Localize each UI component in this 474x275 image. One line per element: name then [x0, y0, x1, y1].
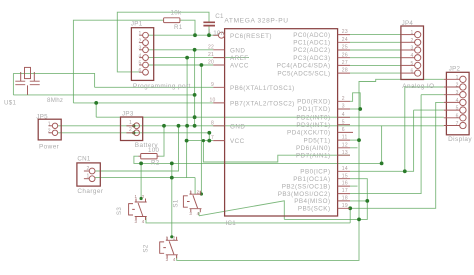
- switch S2 labels: [143, 235, 176, 262]
- svg-text:S2: S2: [143, 244, 150, 252]
- wire long line y116.5 to JP2 pin6: [96, 116, 444, 118]
- wire XTAL1 row y87.3 to IC pin9: [95, 86, 214, 88]
- switch S1: [183, 191, 201, 213]
- IC1 pin 1 inversion circle: [218, 32, 224, 38]
- svg-text:10k: 10k: [171, 9, 182, 16]
- wire AREF row y57.6: JP1 pin4 to IC pin21 crossing into IC: [148, 57, 249, 59]
- wire VCC bus y132.8: JP5 pin2 through JP3 to VCC riser: [58, 133, 209, 141]
- svg-text:PB4(MISO): PB4(MISO): [294, 198, 330, 205]
- svg-text:PD5(T1): PD5(T1): [304, 137, 331, 144]
- svg-text:14: 14: [342, 166, 348, 172]
- crystal U$1 labels: [4, 97, 63, 106]
- wire R1 right to RESET row: [180, 20, 195, 35]
- svg-text:AREF: AREF: [230, 55, 249, 62]
- svg-text:1: 1: [129, 120, 132, 126]
- wire S2 bottom line to JP2 pin1 via riser x359: [177, 79, 444, 260]
- wire crystal left pin down: [12, 73, 14, 95]
- svg-text:S1: S1: [172, 199, 179, 207]
- wire AVCC row y65: JP1 pin5 to IC pin20: [148, 64, 213, 66]
- wire net RESET top: C1 top to JP1 pin6: [117, 12, 209, 72]
- svg-text:6: 6: [342, 127, 345, 133]
- switch S3 labels: [116, 194, 145, 224]
- svg-text:27: 27: [342, 60, 348, 66]
- svg-text:U$1: U$1: [4, 99, 17, 106]
- svg-text:PB6(XTAL1/TOSC1): PB6(XTAL1/TOSC1): [230, 85, 295, 92]
- wire crystal top to XTAL1 step: [13, 73, 94, 87]
- svg-text:PD6(AIN0): PD6(AIN0): [296, 145, 331, 152]
- svg-text:12: 12: [342, 142, 348, 148]
- wire S1 diagonal: [199, 201, 284, 220]
- svg-text:100: 100: [148, 147, 159, 154]
- svg-text:4: 4: [410, 53, 413, 59]
- wire RESET row: JP1 pin1 to IC pin1: [148, 34, 218, 36]
- svg-text:PD4(XCK/T0): PD4(XCK/T0): [287, 130, 330, 137]
- svg-text:24: 24: [342, 37, 348, 43]
- svg-text:8: 8: [211, 120, 214, 126]
- wire IC pin26 to JP4 pin4: [350, 57, 401, 59]
- wire IC pin25 to JP4 pin3: [350, 49, 401, 51]
- svg-text:1: 1: [48, 121, 51, 127]
- wire IC pin28 to JP4 pin6: [350, 72, 401, 74]
- svg-text:2: 2: [410, 38, 413, 44]
- wire IC pin27 to JP4 pin5: [350, 64, 401, 66]
- connector JP4 labels: [402, 20, 435, 90]
- svg-text:Charger: Charger: [77, 188, 103, 195]
- svg-text:PB0(ICP): PB0(ICP): [300, 169, 330, 176]
- svg-text:AVCC: AVCC: [230, 63, 249, 70]
- svg-text:PB3(MOSI/OC2): PB3(MOSI/OC2): [278, 191, 331, 198]
- svg-text:PC5(ADC5/SCL): PC5(ADC5/SCL): [277, 70, 330, 77]
- wire JP2 pin5 row: [414, 109, 444, 111]
- svg-text:16: 16: [342, 181, 348, 187]
- svg-text:3: 3: [456, 90, 459, 96]
- svg-text:C1: C1: [215, 13, 224, 20]
- svg-text:Programming port: Programming port: [133, 83, 191, 90]
- svg-text:22: 22: [208, 44, 214, 50]
- IC1 left pin names: [230, 33, 295, 145]
- svg-text:Display: Display: [448, 136, 472, 143]
- svg-text:GND: GND: [230, 47, 245, 54]
- IC1 right pin numbers: [342, 29, 348, 209]
- wire pin11 row: [350, 139, 359, 141]
- svg-text:21: 21: [208, 52, 214, 58]
- wire pin14 to JP2 pin5 riser: [350, 110, 414, 171]
- crystal U$1 ceramic resonator: [15, 67, 39, 95]
- svg-text:PD3(INT1): PD3(INT1): [296, 122, 330, 129]
- svg-text:Analog IO: Analog IO: [402, 83, 434, 90]
- IC1 title: [224, 18, 288, 25]
- svg-text:17: 17: [342, 188, 348, 194]
- wire GND row y49.8: JP1 pin3 to IC pin22: [148, 49, 213, 51]
- wire pin12 row: [350, 147, 358, 149]
- svg-text:1: 1: [86, 174, 89, 180]
- CN1 pins 2,1: [84, 168, 95, 182]
- svg-text:JP4: JP4: [402, 20, 414, 27]
- svg-text:25: 25: [342, 45, 348, 51]
- svg-text:20: 20: [208, 60, 214, 66]
- wire pin2 RXD loop to pin3 row: [350, 93, 360, 109]
- switch S1 labels: [172, 189, 199, 216]
- wire JP2 pin2 riser x404.8: [405, 87, 444, 171]
- svg-text:4: 4: [142, 219, 145, 224]
- svg-text:2: 2: [142, 194, 145, 199]
- wire VCC row y140.6 to IC pin7: [187, 140, 214, 142]
- svg-text:JP1: JP1: [131, 20, 143, 27]
- svg-text:4: 4: [173, 257, 176, 262]
- svg-text:VCC: VCC: [230, 138, 245, 145]
- wire vertical x187.1 from GND row to VCC row: [186, 58, 188, 141]
- svg-text:PB7(XTAL2/TOSC2): PB7(XTAL2/TOSC2): [230, 101, 295, 108]
- svg-text:1: 1: [138, 31, 141, 37]
- svg-text:19: 19: [342, 203, 348, 209]
- connector JP2 display box: [446, 72, 469, 135]
- wire pin13 row from VCC step crossing IC: [203, 141, 350, 162]
- wire pin19 to JP2 pin4: [350, 102, 444, 208]
- connector JP1 programming port box: [131, 28, 153, 81]
- wire pin16 row: [350, 185, 358, 187]
- svg-text:1: 1: [410, 30, 413, 36]
- svg-text:10: 10: [209, 98, 215, 104]
- resistor R2 labels: [148, 147, 160, 167]
- svg-text:JP2: JP2: [449, 66, 461, 73]
- svg-text:JP3: JP3: [122, 110, 134, 117]
- svg-text:3: 3: [342, 104, 345, 110]
- svg-text:6: 6: [456, 113, 459, 119]
- svg-text:PB1(OC1A): PB1(OC1A): [293, 176, 330, 183]
- svg-text:PC2(ADC2): PC2(ADC2): [293, 47, 330, 54]
- svg-text:5: 5: [410, 61, 413, 67]
- IC1 left pin stubs: [213, 35, 224, 140]
- svg-text:PC4(ADC4/SDA): PC4(ADC4/SDA): [277, 63, 331, 70]
- wire GND bus y125.8: JP5 pin1 through JP3 and IC to JP2 pin7: [58, 125, 444, 127]
- connector JP3 battery box: [121, 117, 143, 141]
- connector JP5 labels: [36, 113, 59, 150]
- resistor R1 labels: [171, 9, 183, 31]
- wire S3 bottom line y222.9: [146, 217, 350, 223]
- svg-text:S3: S3: [116, 207, 123, 215]
- wire S1 top riser: [194, 178, 196, 195]
- connector JP3 labels: [122, 110, 158, 149]
- svg-text:6: 6: [410, 69, 413, 75]
- svg-text:3: 3: [138, 46, 141, 52]
- svg-text:2: 2: [138, 38, 141, 44]
- svg-text:15: 15: [342, 173, 348, 179]
- svg-text:4: 4: [342, 112, 345, 118]
- IC1 right pin names: [277, 32, 331, 213]
- wire S3 top riser x141.1: [140, 163, 142, 198]
- connector CN1 labels: [77, 156, 103, 195]
- JP5 pins 1-2: [49, 123, 58, 135]
- svg-text:11: 11: [342, 135, 348, 141]
- svg-text:28: 28: [342, 68, 348, 74]
- wire IC pin23 to JP4 pin1: [350, 34, 401, 36]
- svg-text:PD1(TXD): PD1(TXD): [298, 106, 331, 113]
- resistor R1: [164, 18, 180, 23]
- svg-text:7: 7: [211, 135, 214, 141]
- svg-text:PD7(AIN1): PD7(AIN1): [296, 152, 331, 159]
- capacitor C1 labels: [213, 13, 224, 37]
- svg-text:1: 1: [208, 29, 211, 35]
- svg-text:GND: GND: [230, 123, 245, 130]
- wire riser x350.2 from pin19 to S3 bottom line: [349, 208, 351, 223]
- svg-text:9: 9: [211, 82, 214, 88]
- svg-text:PB2(SS/OC1B): PB2(SS/OC1B): [282, 183, 331, 190]
- svg-text:PC3(ADC3): PC3(ADC3): [293, 55, 330, 62]
- svg-text:1: 1: [456, 75, 459, 81]
- svg-text:13: 13: [342, 150, 348, 156]
- JP3 pins 1-2: [126, 123, 139, 136]
- svg-text:3: 3: [166, 257, 169, 262]
- svg-text:Power: Power: [39, 143, 60, 150]
- wire XTAL2 row y102.9: left riser to IC pin10: [73, 102, 213, 104]
- svg-text:2: 2: [456, 83, 459, 89]
- svg-text:PB5(SCK): PB5(SCK): [298, 206, 331, 213]
- svg-text:3: 3: [135, 219, 138, 224]
- svg-text:3: 3: [410, 46, 413, 52]
- connector JP5 power box: [38, 119, 61, 140]
- svg-text:5: 5: [456, 106, 459, 112]
- resistor R2: [139, 154, 160, 159]
- svg-text:2: 2: [173, 235, 176, 240]
- wire S2 top riser x171.8: [171, 163, 173, 236]
- svg-text:1: 1: [135, 194, 138, 199]
- wire crystal case row y94.9 to GND riser: [13, 94, 194, 96]
- IC1 name label: [226, 220, 237, 227]
- svg-text:JP5: JP5: [36, 113, 48, 120]
- wire battery line y163.4: R2 left corner across to x381.6: [134, 156, 382, 163]
- switch S3: [129, 199, 147, 221]
- IC1 left pin numbers: [208, 29, 216, 141]
- wire pin3 TXD row: [350, 108, 360, 110]
- wire VCC riser branch x186.6 down to y177.6: [186, 141, 188, 178]
- wire C1 bottom to RESET row: [208, 27, 210, 36]
- svg-text:PD2(INT0): PD2(INT0): [296, 115, 330, 122]
- svg-text:23: 23: [342, 29, 348, 35]
- svg-text:R1: R1: [174, 24, 183, 31]
- wire R2 right riser to GND bus: [159, 126, 164, 156]
- wire S1 return line y219.4 to pin15 riser: [284, 179, 367, 220]
- svg-text:3: 3: [189, 211, 192, 216]
- switch S2: [160, 237, 178, 258]
- svg-text:5: 5: [138, 61, 141, 67]
- capacitor C1: [203, 22, 215, 25]
- connector CN1 charger box: [77, 163, 100, 186]
- svg-text:7: 7: [456, 121, 459, 127]
- wire pin17 riser x421.1 up to JP2 pin3 row: [350, 95, 421, 194]
- svg-text:IC1: IC1: [226, 220, 237, 227]
- svg-text:2: 2: [129, 127, 132, 133]
- svg-text:26: 26: [342, 52, 348, 58]
- connector JP1 labels: [131, 20, 191, 90]
- svg-text:5: 5: [342, 119, 345, 125]
- JP2 pins 1-7: [444, 76, 466, 129]
- svg-text:R2: R2: [151, 160, 160, 167]
- wire vertical x201.7 from AVCC row down to switch S1 pin2: [200, 65, 202, 194]
- svg-text:2: 2: [86, 166, 89, 172]
- svg-text:18: 18: [342, 196, 348, 202]
- svg-text:1: 1: [189, 189, 192, 194]
- svg-text:6: 6: [138, 68, 141, 74]
- svg-text:ATMEGA 328P-PU: ATMEGA 328P-PU: [224, 18, 288, 25]
- wire short riser x381.6 GND to battery line: [381, 126, 383, 164]
- svg-text:2: 2: [48, 128, 51, 134]
- svg-text:PC6(RESET): PC6(RESET): [230, 33, 272, 40]
- wire pin18 row to riser x367.3: [350, 200, 367, 202]
- svg-text:10n: 10n: [213, 30, 224, 37]
- svg-text:PC0(ADC0): PC0(ADC0): [293, 32, 330, 39]
- wire net VCC top: left riser to R1 left: [73, 20, 163, 103]
- svg-text:4: 4: [456, 98, 459, 104]
- svg-text:2: 2: [197, 189, 200, 194]
- JP1 pins 1-6 circles and stubs: [139, 32, 148, 75]
- IC1 right pin stubs: [338, 35, 353, 209]
- op-amp U1 body: microcontroller IC1 ATMEGA328P-PU box: [225, 29, 338, 216]
- wire vertical x194.6 from GND row down to GND bus: [194, 50, 196, 126]
- wire IC pin24 to JP4 pin2: [350, 41, 401, 43]
- svg-text:2: 2: [342, 96, 345, 102]
- wire JP2 pin3 row from riser x421.1: [421, 94, 444, 96]
- connector JP2 labels: [448, 66, 472, 143]
- svg-text:1: 1: [166, 235, 169, 240]
- svg-text:8Mhz: 8Mhz: [47, 97, 63, 104]
- svg-text:4: 4: [138, 53, 141, 59]
- wire riser x96.2 from XTAL2 row to long INT0 line: [95, 103, 97, 117]
- wire CN1 pin1 to switch tops line y177.6: [95, 178, 195, 179]
- wire CN1 pin2 riser to GND bus: [95, 126, 179, 171]
- svg-text:PD0(RXD): PD0(RXD): [297, 99, 330, 106]
- connector JP4 analog io box: [401, 26, 424, 80]
- svg-text:PC1(ADC1): PC1(ADC1): [293, 40, 330, 47]
- JP4 pins 1-6: [401, 31, 421, 76]
- svg-text:CN1: CN1: [77, 156, 91, 163]
